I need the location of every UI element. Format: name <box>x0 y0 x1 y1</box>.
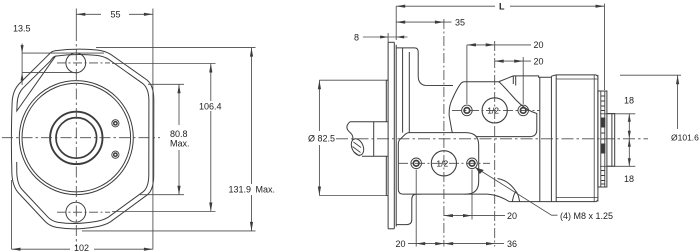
dim 80.8 top extension <box>148 83 184 85</box>
upper port 1/2 circle <box>482 98 507 123</box>
shaft break hatch <box>353 142 362 156</box>
body verticals behind flange <box>402 48 404 133</box>
lower left M8 hole <box>411 158 422 169</box>
dim 20 lower right extension <box>471 170 473 220</box>
cylinder silhouette arc above web <box>498 179 517 192</box>
arrows 106.4 <box>209 64 212 73</box>
upper port boss face <box>449 82 537 137</box>
svg-text:8: 8 <box>354 33 359 43</box>
dim Ø101.6 vertical line <box>677 75 679 129</box>
svg-text:102: 102 <box>74 243 89 252</box>
shaft spline end line <box>373 122 375 157</box>
arrows 20 lower <box>444 214 453 217</box>
upper port vertical centerline <box>494 41 496 247</box>
bottom bolt hole <box>66 202 86 222</box>
svg-text:36: 36 <box>507 239 517 249</box>
dim 131.9 bottom extension <box>82 230 256 232</box>
bottom row extension bolt <box>415 170 417 247</box>
body bottom tab <box>396 194 421 225</box>
svg-text:131.9: 131.9 <box>229 185 252 195</box>
lower right M8 hole <box>467 158 478 169</box>
dim 13.5 lower extension line <box>22 72 76 74</box>
flange right face <box>395 45 397 227</box>
bottom bolt hole centerline <box>57 211 110 213</box>
dim 106.4 bottom extension <box>112 211 216 213</box>
vertical centerline <box>75 9 77 31</box>
svg-text:13.5: 13.5 <box>13 24 31 34</box>
main horizontal centerline <box>336 138 648 140</box>
small hole upper-right inner <box>114 122 117 125</box>
dim Ø82.5 top extension <box>319 79 388 81</box>
arrows 80.8 <box>177 84 180 93</box>
arrows 102 <box>12 248 21 251</box>
shaft bottom edge <box>362 155 388 157</box>
flange bottom edge <box>388 228 394 230</box>
saddle S-curve from lower boss bottom to cylinder bottom <box>464 194 509 202</box>
arrows 20 upper#2 <box>495 60 504 63</box>
arrows 131.9 <box>250 48 253 57</box>
lower boss face plate <box>398 133 478 195</box>
svg-text:55: 55 <box>111 10 121 20</box>
upper boss face plate <box>449 82 537 137</box>
svg-text:Max.: Max. <box>170 139 190 149</box>
top bolt hole <box>66 53 86 73</box>
spline ring dark tooth bands <box>601 118 606 154</box>
dim 20 lower line <box>444 215 505 217</box>
dim 102 line <box>12 248 71 250</box>
flange outline outer <box>11 49 153 229</box>
cylinder chamfer lines <box>556 79 598 198</box>
arrows 35 <box>396 21 405 24</box>
cylinder bottom profile <box>509 200 598 202</box>
lower port vertical centerline <box>443 19 445 247</box>
center lines of left view <box>2 9 160 248</box>
dim 80.8 bottom extension <box>140 194 184 196</box>
svg-text:20: 20 <box>507 211 517 221</box>
dim 13.5 vertical line <box>21 44 23 86</box>
bottom row dim line <box>408 243 504 245</box>
dim 20 upper#2 line <box>495 60 531 62</box>
shaft break ellipse <box>349 137 366 157</box>
rear boss <box>607 114 615 167</box>
dim Ø82.5 vertical line <box>318 80 320 131</box>
pilot boss top <box>386 80 388 122</box>
dim 80.8 line <box>178 84 180 125</box>
shaft top edge <box>350 121 388 123</box>
lower port boss face <box>398 133 478 195</box>
spline ring outline <box>598 91 607 187</box>
upper left M8 hole <box>462 105 473 116</box>
dim Ø101.6 extension <box>620 74 681 76</box>
bore ring inner <box>56 118 97 159</box>
dim 55 line <box>76 13 101 15</box>
dim 18 bottom extension <box>600 165 635 167</box>
cylinder right end line <box>597 75 599 202</box>
flange chamfer line <box>393 42 395 229</box>
svg-text:20: 20 <box>534 57 544 67</box>
dim 8 line <box>363 36 408 38</box>
shaft break S-curve <box>347 122 353 140</box>
flange chamfer inner line <box>17 55 149 224</box>
dim L left extension <box>395 6 397 40</box>
cylinder top profile <box>513 75 598 77</box>
dim 55 right extension line (full height) <box>152 9 154 250</box>
svg-text:Max.: Max. <box>256 185 276 195</box>
arrow Ø101.6 <box>676 75 679 84</box>
dim 18 vertical line <box>628 114 630 167</box>
arrows L <box>396 5 405 8</box>
spline ring teeth <box>601 91 605 187</box>
svg-text:(4) M8 x 1.25: (4) M8 x 1.25 <box>560 211 613 221</box>
svg-text:20: 20 <box>534 40 544 50</box>
arrows 8 <box>380 36 388 39</box>
body circle inner <box>22 83 131 192</box>
dim 102 left extension <box>11 180 13 249</box>
pilot boss bottom <box>386 156 388 195</box>
arrows 20 upper#1 <box>467 43 476 46</box>
dim 20 upper#1 line <box>467 44 531 46</box>
beak between boss and cylinder <box>499 76 516 86</box>
arrows 18 <box>628 114 631 122</box>
dim L right extension <box>604 4 606 90</box>
small hole lower-right outer <box>112 151 119 158</box>
dim 13.5 upper extension line <box>22 52 104 54</box>
arrows 55 <box>76 13 85 16</box>
lower port horizontal centerline <box>398 162 490 164</box>
dim 8 left extension <box>387 33 389 42</box>
svg-text:20: 20 <box>396 239 406 249</box>
top bolt hole centerline <box>57 62 110 64</box>
dim 131.9 line <box>251 48 253 184</box>
dim 20 upper#2 right extension <box>522 57 524 104</box>
leader arrow M8 <box>476 168 484 175</box>
body top tab <box>396 48 453 86</box>
svg-text:18: 18 <box>624 174 634 184</box>
transition curves between bosses <box>464 179 520 202</box>
dim 20 upper#1 left extension <box>466 45 468 104</box>
casting web trumpet <box>512 192 519 202</box>
cylinder groove lines <box>539 77 541 201</box>
horizontal centerline <box>2 137 160 139</box>
dim 35 line <box>396 21 451 23</box>
upper port horizontal centerline <box>452 109 540 111</box>
arrows Ø82.5 <box>318 80 321 89</box>
dim 106.4 top extension <box>112 63 216 65</box>
svg-text:Ø101.6: Ø101.6 <box>671 133 699 143</box>
svg-text:L: L <box>499 2 505 12</box>
bore ring outer <box>50 112 102 164</box>
leader M8 <box>476 168 558 216</box>
svg-text:80.8: 80.8 <box>170 129 188 139</box>
dim 131.9 top extension <box>96 47 256 49</box>
lower port 1/2 circle <box>431 151 456 176</box>
small hole upper-right outer <box>112 120 119 127</box>
flange plate left face <box>387 42 389 229</box>
upper right M8 hole <box>518 105 529 116</box>
cylinder end groove <box>593 75 595 202</box>
arrows bottom row <box>416 242 425 245</box>
body circle outer <box>19 81 133 195</box>
dim Ø82.5 bottom extension <box>319 195 388 197</box>
svg-text:35: 35 <box>455 18 465 28</box>
dim 18 top extension <box>600 113 635 115</box>
svg-text:106.4: 106.4 <box>199 102 222 112</box>
svg-text:Ø 82.5: Ø 82.5 <box>308 133 335 143</box>
dim L line <box>396 5 495 7</box>
dim 106.4 line <box>210 64 212 102</box>
flange top edge <box>388 41 394 43</box>
small hole lower-right inner <box>114 153 117 156</box>
arrows 13.5 <box>21 45 24 53</box>
svg-text:18: 18 <box>624 95 634 105</box>
